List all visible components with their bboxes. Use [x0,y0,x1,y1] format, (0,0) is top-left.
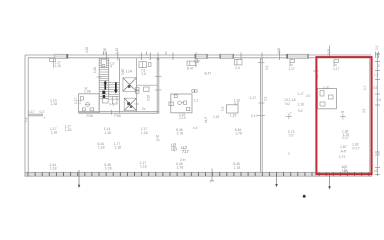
svg-text:3,65: 3,65 [121,69,125,75]
svg-text:1,78: 1,78 [177,165,184,169]
svg-text:0,95: 0,95 [147,95,151,101]
window W3 [220,54,233,58]
svg-text:2,0: 2,0 [306,94,311,98]
right dimension line [375,53,380,176]
svg-text:3,2: 3,2 [362,108,366,113]
svg-text:0,17: 0,17 [251,114,258,118]
bathroom toilet [82,108,85,111]
corridor wall x136 [135,58,137,112]
wall top outer [25,54,372,56]
svg-text:3,2: 3,2 [264,96,268,101]
ticks crossing wall x157 [155,76,162,78]
tick crossing corridor wall [135,103,140,105]
svg-text:7х2: 7х2 [298,109,303,113]
window W4 [287,54,308,58]
red highlight rectangle [316,57,371,174]
svg-text:1,78: 1,78 [235,131,242,135]
window W2 [195,54,207,58]
bottom dimension drop 2 [210,169,214,182]
landing fixture [102,98,108,103]
svg-text:7: 7 [209,180,211,184]
room WC top-right squares [192,90,197,92]
svg-text:7х2: 7х2 [285,102,291,106]
bathroom boiler [90,108,94,111]
svg-text:2,4: 2,4 [235,66,240,70]
stair shaft left wall [99,58,119,113]
svg-text:1,16: 1,16 [51,130,58,134]
stair treads [99,59,119,100]
svg-text:Р.06: Р.06 [87,114,93,118]
svg-text:0,4: 0,4 [234,101,239,105]
svg-text:2,6: 2,6 [142,72,147,76]
wall left inner [27,58,29,173]
wall x157 vertical [157,58,159,113]
ticks crossing wall x261 [258,62,265,64]
door symbol mid-right [290,60,295,67]
window symbol room1 [187,61,196,65]
svg-text:1,50: 1,50 [93,67,97,73]
svg-text:1,2: 1,2 [374,73,379,77]
room WC door marks [169,102,174,106]
svg-text:2 эт: 2 эт [180,158,186,162]
room WC fixtures [178,101,190,111]
shaft X box 2 [124,98,136,110]
svg-text:2,2: 2,2 [78,99,82,104]
stair wall tick [97,76,102,78]
svg-text:У-1: У-1 [109,103,114,107]
bathroom sink circle [86,103,90,107]
wall left outer [24,55,26,176]
svg-text:с,4: с,4 [193,126,197,130]
svg-text:1,18: 1,18 [50,166,57,170]
svg-text:1,78: 1,78 [234,166,241,170]
room WC outline [171,94,192,113]
svg-text:1,1: 1,1 [194,99,199,103]
stair shaft right wall [118,58,120,113]
svg-text:2,19: 2,19 [179,116,185,120]
svg-text:Р.06: Р.06 [114,114,120,118]
door symbol top-left [49,58,55,68]
svg-text:2,60: 2,60 [277,48,281,54]
stub wall left [28,114,42,116]
svg-text:1,78: 1,78 [105,166,112,170]
svg-text:717: 717 [182,149,190,154]
svg-text:1,7: 1,7 [363,85,367,90]
small room in red box [318,89,337,109]
dimension ticks on top wall [103,46,378,68]
stair shaft mid wall [108,58,110,98]
shaft X box 1 [123,78,136,92]
dimension labels above top wall [85,45,379,55]
svg-text:1,16: 1,16 [55,64,61,68]
svg-text:0,2: 0,2 [40,110,45,114]
bottom dimension drop 3 [276,176,278,185]
svg-text:1,15: 1,15 [230,113,237,117]
svg-text:2: 2 [378,64,380,68]
svg-text:эт.: эт. [85,87,89,91]
stair top landing box [101,59,106,67]
wall bottom band ticks [28,172,369,176]
svg-text:0,17: 0,17 [343,136,349,140]
wall x261 vertical [260,58,262,173]
svg-text:1,1: 1,1 [24,117,28,122]
svg-text:1,16: 1,16 [194,60,200,64]
svg-text:Р-17: Р-17 [353,146,360,150]
stair arrow up [102,80,117,98]
survey dot [303,195,306,198]
svg-text:Е3: Е3 [374,86,378,90]
stair arrow down [115,83,117,91]
svg-text:11,3: 11,3 [204,117,208,123]
corridor divider [136,84,157,86]
svg-text:1,18: 1,18 [104,131,111,135]
svg-text:2х: 2х [142,107,146,111]
svg-text:4: 4 [110,65,112,69]
fixture table center [227,105,239,113]
svg-text:1,04: 1,04 [126,70,133,74]
window W1 top-left [55,54,69,59]
svg-text:2,6: 2,6 [377,98,382,102]
corridor marks [136,87,150,93]
svg-text:8,47: 8,47 [187,66,194,70]
svg-text:ЦВ: ЦВ [171,147,177,152]
svg-text:1,15: 1,15 [213,115,219,119]
svg-text:1,18: 1,18 [298,103,304,107]
stair dark marks [102,91,105,94]
svg-text:ит: ит [341,110,345,114]
stair circle [102,64,105,67]
bathroom corner mark [81,97,84,101]
svg-text:2,9: 2,9 [375,153,380,157]
tick crossing landing bottom wall [111,110,113,115]
tick crossing wall x261 [258,115,266,117]
landing fixture 2 [112,97,117,104]
svg-text:1,17: 1,17 [298,92,304,96]
svg-text:1,18: 1,18 [65,128,72,132]
svg-text:А-П: А-П [341,149,347,153]
svg-text:1,17: 1,17 [333,67,339,71]
bottom dimension drop 1 [78,170,80,187]
svg-text:3,2: 3,2 [265,65,269,70]
svg-text:1,17: 1,17 [289,67,295,71]
svg-text:2с: 2с [156,138,160,142]
svg-text:1,18: 1,18 [51,102,58,106]
svg-text:с2: с2 [374,169,378,173]
svg-text:1,78: 1,78 [177,132,184,136]
svg-text:8,47: 8,47 [205,72,212,76]
svg-text:2,9: 2,9 [375,45,379,50]
corridor window symbol [139,62,151,68]
landing room bottom wall [79,112,159,114]
svg-text:1,18: 1,18 [141,131,148,135]
svg-text:4,73: 4,73 [339,155,345,159]
svg-text:1,9: 1,9 [221,106,225,111]
window symbol room2 [235,59,243,65]
svg-text:0,17: 0,17 [250,96,257,100]
svg-text:717: 717 [288,134,294,138]
svg-text:4,90: 4,90 [85,47,89,53]
wall right [369,57,371,173]
svg-text:5,05: 5,05 [327,49,331,55]
room WC top notch [174,95,177,98]
svg-text:1,40: 1,40 [115,48,119,54]
svg-text:2,20: 2,20 [323,86,330,90]
svg-text:1,17: 1,17 [28,110,35,114]
svg-text:1,16: 1,16 [140,164,147,168]
svg-text:1,18: 1,18 [114,145,121,149]
wall bottom band [25,172,372,176]
svg-text:с: с [288,152,290,156]
svg-text:1,50: 1,50 [103,48,107,54]
svg-text:ЦВ: ЦВ [342,168,348,173]
door symbol in red room [334,60,339,67]
wall top inner [28,57,372,59]
svg-text:1,18: 1,18 [98,145,105,149]
tick on red left edge [313,70,319,72]
bathroom block outline [79,94,100,113]
bottom dimension drop 4 [329,175,331,189]
